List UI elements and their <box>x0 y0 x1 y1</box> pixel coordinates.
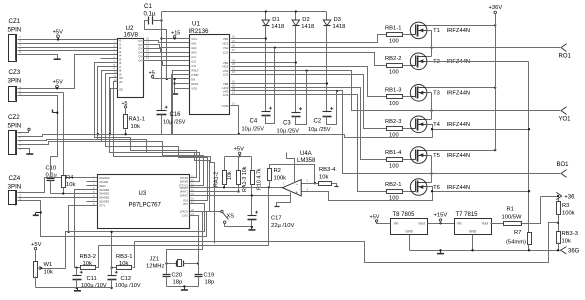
svg-text:CZ4: CZ4 <box>9 175 21 182</box>
capacitor C10 0.1u <box>46 157 57 194</box>
svg-text:15RST: 15RST <box>180 194 189 198</box>
svg-text:JZ1: JZ1 <box>150 257 160 263</box>
svg-text:GND: GND <box>469 230 477 234</box>
resistor RB3-2 10k <box>75 246 98 270</box>
power +5V at T8 <box>370 214 391 223</box>
wire U1 FALT ITRIP stubs <box>172 71 190 135</box>
wire regulator ground rail <box>410 235 561 252</box>
transistor T1 IRFZ44N <box>410 22 470 39</box>
svg-text:OE: OE <box>119 87 123 91</box>
svg-text:/LI3: /LI3 <box>191 64 196 68</box>
svg-text:14INT1: 14INT1 <box>179 190 188 194</box>
wire phase B node <box>427 156 432 183</box>
svg-text:C11: C11 <box>87 276 97 282</box>
svg-text:T6: T6 <box>433 185 440 191</box>
svg-text:RB3-3: RB3-3 <box>562 231 578 237</box>
power +5 at RA1-1 <box>122 101 128 108</box>
diode D3 1418 <box>323 12 345 31</box>
svg-text:18p: 18p <box>205 280 215 286</box>
svg-text:R1: R1 <box>507 207 514 213</box>
svg-text:Vin: Vin <box>394 222 399 226</box>
wire T5 drain to rail <box>427 149 497 151</box>
diode D1 1418 <box>262 12 284 31</box>
svg-text:LO1: LO1 <box>223 50 229 54</box>
svg-text:+15: +15 <box>171 30 180 36</box>
capacitor C3 <box>277 71 307 135</box>
wire op-amp V+ hook <box>287 153 295 183</box>
svg-text:100: 100 <box>389 133 399 139</box>
svg-text:RB2-3: RB2-3 <box>385 119 401 125</box>
svg-text:100: 100 <box>389 39 399 45</box>
IC U3 P87LPC767 <box>93 175 194 229</box>
svg-text:RB3-2: RB3-2 <box>80 254 96 260</box>
svg-text:C16: C16 <box>170 112 182 118</box>
wire sense RB3-2 to op-amp <box>99 188 269 246</box>
power +15V terminal <box>434 213 448 224</box>
svg-text:C4: C4 <box>250 119 258 125</box>
svg-text:10µ /25V: 10µ /25V <box>277 129 300 135</box>
svg-text:RB2-2: RB2-2 <box>385 56 401 62</box>
svg-text:W1: W1 <box>44 262 53 268</box>
transistor T2 IRFZ44N <box>410 53 470 70</box>
wire COM to ground rail <box>231 106 240 136</box>
resistor RB2-2 100 <box>385 56 411 75</box>
svg-text:VS1: VS1 <box>223 46 229 50</box>
power +15 at U1 VCC <box>171 30 180 38</box>
svg-text:R7: R7 <box>514 230 521 236</box>
svg-text:13INT0: 13INT0 <box>179 186 188 190</box>
wire U3 left pin stubs <box>51 182 98 268</box>
transistor T5 IRFZ44N <box>410 147 470 164</box>
svg-text:O6: O6 <box>138 58 142 62</box>
transistor T3 IRFZ44N <box>410 85 470 102</box>
svg-text:/FALT: /FALT <box>191 68 199 72</box>
svg-text:C17: C17 <box>271 216 282 222</box>
wire VS1 phase R <box>231 46 433 48</box>
resistor R7 shunt <box>506 230 532 251</box>
svg-text:1418: 1418 <box>271 24 284 30</box>
svg-text:(54mm): (54mm) <box>506 240 526 246</box>
svg-text:Vout: Vout <box>482 222 489 226</box>
wire XS C17 ground <box>225 226 254 228</box>
resistor RB1-1 100 <box>385 25 411 44</box>
ground at crystal <box>181 289 188 291</box>
wire VB3 net <box>231 26 329 112</box>
output RO1 <box>432 44 572 60</box>
potentiometer W1 10k <box>34 204 205 288</box>
svg-text:C3: C3 <box>283 121 291 127</box>
wire RA1-3 to U3 <box>190 191 239 193</box>
svg-text:T2: T2 <box>433 59 440 65</box>
svg-text:T3: T3 <box>433 91 440 97</box>
svg-text:07T1: 07T1 <box>99 203 106 207</box>
svg-text:C20: C20 <box>172 272 183 278</box>
svg-text:Vout: Vout <box>418 222 425 226</box>
transistor T6 IRFZ44N <box>410 179 470 196</box>
svg-text:RB3-1: RB3-1 <box>116 254 132 260</box>
svg-text:RA1-1: RA1-1 <box>129 117 145 123</box>
svg-text:+5V: +5V <box>370 214 380 220</box>
svg-text:I11: I11 <box>119 80 123 84</box>
svg-text:+5V: +5V <box>53 29 64 35</box>
connector CZ2 <box>8 114 22 155</box>
svg-text:16V8: 16V8 <box>124 32 139 39</box>
wire U1 EN RCIN VSS <box>153 78 190 94</box>
power +5V at RA resistors <box>234 147 245 158</box>
wire op-amp output to U3 <box>190 186 283 188</box>
wire VB2 net <box>231 26 297 113</box>
svg-text:D1: D1 <box>272 17 279 23</box>
ground at regulators <box>437 251 444 254</box>
svg-text:0.1u: 0.1u <box>46 173 57 179</box>
resistor RB2-3 100 <box>385 119 411 138</box>
resistor RB2-1 100 <box>385 182 411 201</box>
svg-text:36G: 36G <box>568 249 580 255</box>
svg-text:+5V: +5V <box>234 147 245 153</box>
svg-text:RCIN: RCIN <box>191 82 198 86</box>
wire HO2 to gate T3 <box>231 67 387 97</box>
svg-text:5PIN: 5PIN <box>8 123 22 130</box>
wire phase R node <box>427 31 432 57</box>
crystal JZ1 12MHz <box>146 257 199 270</box>
svg-text:LM358: LM358 <box>297 158 316 164</box>
svg-text:+5V: +5V <box>31 242 42 248</box>
svg-text:P87LPC767: P87LPC767 <box>129 203 162 209</box>
svg-text:VB1: VB1 <box>223 37 229 41</box>
svg-text:10k: 10k <box>319 175 328 181</box>
svg-text:IRFZ44N: IRFZ44N <box>447 59 471 65</box>
svg-text:RB2-1: RB2-1 <box>385 182 401 188</box>
svg-text:P17: P17 <box>183 202 188 206</box>
wire CZ2 pins <box>18 131 103 154</box>
svg-text:P16: P16 <box>183 198 188 202</box>
ground at CZ2 <box>26 153 33 155</box>
wire T1 drain to rail <box>427 24 497 26</box>
wire CZ1 pins <box>18 40 118 59</box>
svg-text:R10 4.7k: R10 4.7k <box>257 168 263 190</box>
IC U1 IR2136 <box>189 21 236 115</box>
svg-text:RB1-4: RB1-4 <box>385 150 402 156</box>
terminal 36G <box>561 247 580 255</box>
svg-text:RB3-4: RB3-4 <box>319 167 336 173</box>
svg-text:R3: R3 <box>562 203 569 209</box>
capacitor C20 18p <box>163 264 183 287</box>
wire bottom ground rail <box>36 287 112 289</box>
wire VS3 to phase B <box>231 90 433 175</box>
resistor R3 100k <box>557 197 575 232</box>
svg-text:10µ /25V: 10µ /25V <box>308 127 331 133</box>
wire R10 node to U3 <box>190 194 291 196</box>
wire CZ3 pins <box>18 55 118 157</box>
capacitor C19 18p <box>195 264 215 287</box>
svg-text:1418: 1418 <box>333 24 346 30</box>
wire crystal ground <box>167 285 199 289</box>
svg-text:+15V: +15V <box>434 213 448 219</box>
wire +36 feed line <box>541 195 560 197</box>
svg-text:10µ /25V: 10µ /25V <box>242 127 265 133</box>
wire U1 VCC <box>162 37 190 39</box>
wire T2 source to shunt <box>427 62 529 233</box>
svg-text:10TXD: 10TXD <box>180 176 188 180</box>
svg-text:18p: 18p <box>173 280 183 286</box>
ground tap at CZ4 wire <box>33 211 42 215</box>
svg-text:IRFZ44N: IRFZ44N <box>447 91 471 97</box>
wire op-amp feedback <box>270 165 317 185</box>
svg-text:04ADB1: 04ADB1 <box>99 192 110 196</box>
ground at U1 VSS <box>171 93 178 95</box>
capacitor C1 <box>144 3 156 25</box>
svg-text:00GND2: 00GND2 <box>99 176 110 180</box>
resistor RB3-4 10k <box>319 167 339 187</box>
capacitor C4 <box>242 48 275 133</box>
resistor RB3-3 10k <box>557 231 578 251</box>
svg-text:T1: T1 <box>433 28 440 34</box>
svg-text:3PIN: 3PIN <box>8 78 22 85</box>
svg-text:HO1: HO1 <box>222 41 228 45</box>
power +36V rail <box>489 5 503 151</box>
power +5V at CZ3 <box>53 80 64 90</box>
wire T6 source return <box>302 187 531 201</box>
resistor RB1-4 100 <box>385 150 411 169</box>
svg-text:RB1-1: RB1-1 <box>385 25 401 31</box>
transistor T4 IRFZ44N <box>410 116 470 133</box>
power +5V at CZ1 <box>53 29 64 40</box>
svg-text:03ADB0: 03ADB0 <box>99 188 110 192</box>
wire T4 source return <box>427 125 531 138</box>
svg-text:−: − <box>296 182 299 187</box>
wire HO3 to gate T5 <box>231 88 387 160</box>
svg-text:T4: T4 <box>433 122 441 128</box>
capacitor C11 100u <box>73 268 107 290</box>
svg-text:CZ1: CZ1 <box>9 18 21 25</box>
resistor RA1-3 10k <box>237 166 249 192</box>
svg-text:10k: 10k <box>562 239 571 245</box>
svg-text:D3: D3 <box>334 17 341 23</box>
svg-text:YO1: YO1 <box>559 117 572 123</box>
wire bus U2 to U3 staircase <box>95 63 215 244</box>
svg-text:R2: R2 <box>274 168 281 174</box>
svg-text:VSS: VSS <box>191 86 197 90</box>
power +5 at U1 EN <box>149 70 155 78</box>
svg-text:R4: R4 <box>66 175 74 181</box>
connector CZ3 <box>8 69 22 102</box>
svg-text:100: 100 <box>389 70 399 76</box>
ground at CZ1 <box>54 58 61 60</box>
resistor R4 10k <box>62 93 76 195</box>
svg-text:05ADB2: 05ADB2 <box>99 196 110 200</box>
svg-text:02DA: 02DA <box>99 184 106 188</box>
connector CZ1 <box>8 18 22 62</box>
svg-text:D2: D2 <box>302 17 309 23</box>
op-amp U4A LM358 <box>283 151 317 196</box>
svg-text:LO2: LO2 <box>223 72 229 76</box>
wire op-amp V- hook <box>275 193 291 207</box>
svg-text:C12: C12 <box>121 276 132 282</box>
svg-text:100µ /10V: 100µ /10V <box>115 283 141 289</box>
svg-text:100: 100 <box>389 163 399 169</box>
ground at C11 <box>74 288 81 291</box>
svg-text:C2: C2 <box>314 119 322 125</box>
capacitor C17 22u <box>248 211 295 229</box>
svg-text:10k: 10k <box>131 124 140 130</box>
capacitor C12 100u <box>108 231 141 289</box>
svg-text:100k: 100k <box>562 211 575 217</box>
output BO1 <box>432 162 570 177</box>
wire CZ4 pins <box>18 178 207 237</box>
svg-text:21X1: 21X1 <box>182 214 189 218</box>
wire U2 pin11 stub <box>111 89 118 135</box>
svg-text:+5V: +5V <box>53 80 64 86</box>
svg-text:RA1-2: RA1-2 <box>214 172 220 187</box>
terminal nc at CZ2 pin1 <box>28 128 30 130</box>
wire RA tops rail <box>225 157 252 171</box>
svg-text:5PIN: 5PIN <box>8 27 22 34</box>
wire op-amp output <box>302 183 319 185</box>
wire LO1 to gate T2 <box>231 53 387 66</box>
wire VS2 to phase Y <box>231 69 433 111</box>
svg-text:+36V: +36V <box>489 5 503 11</box>
wire C1 right to VCC rail <box>153 19 163 21</box>
svg-text:100/5W: 100/5W <box>502 215 523 221</box>
resistor R2 100k <box>268 168 287 188</box>
IC U2 16V8 <box>114 25 150 98</box>
switch XS <box>190 210 235 226</box>
svg-text:12MHz: 12MHz <box>146 264 164 270</box>
resistor R10 4.7k <box>251 168 263 215</box>
resistor RA1-1 10k <box>124 109 145 136</box>
svg-text:U4A: U4A <box>300 151 312 157</box>
capacitor C2 <box>308 91 337 134</box>
svg-text:ITRIP: ITRIP <box>191 73 198 77</box>
wire top rail to diodes <box>160 12 326 111</box>
svg-text:10k: 10k <box>227 171 233 180</box>
svg-text:T7 7815: T7 7815 <box>456 212 479 218</box>
wire LO3 to gate T6 <box>231 95 387 192</box>
resistor R1 100/5W <box>491 197 541 226</box>
svg-text:20XCK: 20XCK <box>180 210 189 214</box>
regulator T7 7815 <box>455 212 492 235</box>
svg-text:RA1-3 10k: RA1-3 10k <box>242 166 248 192</box>
svg-text:VCC: VCC <box>191 37 197 41</box>
wire divider tap to U3 sense <box>135 223 559 263</box>
svg-text:10k: 10k <box>44 270 53 276</box>
svg-text:LO3: LO3 <box>223 93 229 97</box>
svg-text:10µ /25V: 10µ /25V <box>163 120 186 126</box>
svg-text:1418: 1418 <box>301 24 314 30</box>
ground at XS <box>248 227 255 230</box>
svg-text:COM: COM <box>222 104 229 108</box>
svg-text:Vin: Vin <box>457 222 462 226</box>
svg-text:GND: GND <box>406 230 414 234</box>
svg-text:T5: T5 <box>433 153 440 159</box>
svg-text:/LI1: /LI1 <box>191 55 196 59</box>
svg-text:0.1µ: 0.1µ <box>144 12 156 18</box>
svg-text:CZ3: CZ3 <box>9 69 21 76</box>
regulator T8 7805 <box>391 212 428 235</box>
resistor RB3-1 10k <box>110 242 134 270</box>
wire ground rail A <box>43 135 433 138</box>
svg-text:IRFZ44N: IRFZ44N <box>447 185 471 191</box>
svg-text:BO1: BO1 <box>557 162 570 168</box>
svg-text:RB1-3: RB1-3 <box>385 88 401 94</box>
wire VB1 net <box>231 26 267 112</box>
svg-text:01CEB: 01CEB <box>99 180 108 184</box>
output YO1 <box>432 107 572 123</box>
svg-text:/HI1: /HI1 <box>191 41 197 45</box>
svg-text:/HI2: /HI2 <box>191 46 197 50</box>
resistor RB1-3 100 <box>385 88 411 107</box>
svg-text:C19: C19 <box>204 272 215 278</box>
svg-text:U1: U1 <box>192 21 200 28</box>
svg-text:RO1: RO1 <box>559 54 572 60</box>
wire T8 to T7 +15V <box>428 222 455 224</box>
svg-text:100k: 100k <box>274 176 287 182</box>
svg-text:CZ2: CZ2 <box>8 114 20 121</box>
wire T3 drain to rail <box>427 87 497 89</box>
svg-text:10k: 10k <box>66 182 75 188</box>
wire LO2 to gate T4 <box>231 75 387 129</box>
wire crystal to U3 XTAL <box>167 212 203 264</box>
svg-text:U3: U3 <box>139 191 147 197</box>
svg-text:XS: XS <box>227 214 235 220</box>
capacitor C16 <box>157 106 186 135</box>
wire C1 left lead <box>145 21 168 81</box>
svg-text:IRFZ44N: IRFZ44N <box>447 122 471 128</box>
diode D2 1418 <box>292 12 314 31</box>
svg-text:IRFZ44N: IRFZ44N <box>447 28 471 34</box>
svg-text:100: 100 <box>389 101 399 107</box>
svg-text:C1: C1 <box>144 3 152 10</box>
power +5V at W1 <box>31 242 42 262</box>
svg-text:+36: +36 <box>564 195 575 201</box>
svg-text:IRFZ44N: IRFZ44N <box>447 153 471 159</box>
connector CZ4 <box>8 175 22 206</box>
svg-text:22µ /10V: 22µ /10V <box>271 223 294 229</box>
wire U2 outputs to U1 inputs <box>143 41 190 66</box>
wire HO1 to gate T1 <box>231 35 387 43</box>
svg-text:+: + <box>296 190 299 195</box>
resistor RA1-2 10k <box>214 171 234 188</box>
svg-text:/HI3: /HI3 <box>191 50 197 54</box>
svg-text:T8 7805: T8 7805 <box>393 212 416 218</box>
wire phase Y node <box>427 93 432 120</box>
svg-text:EN: EN <box>191 77 195 81</box>
svg-text:11RXD: 11RXD <box>180 180 189 184</box>
ground tap near CZ2 <box>53 110 59 114</box>
svg-text:06ADB3: 06ADB3 <box>99 200 110 204</box>
svg-text:/LI2: /LI2 <box>191 59 196 63</box>
terminal +36 <box>556 192 575 200</box>
